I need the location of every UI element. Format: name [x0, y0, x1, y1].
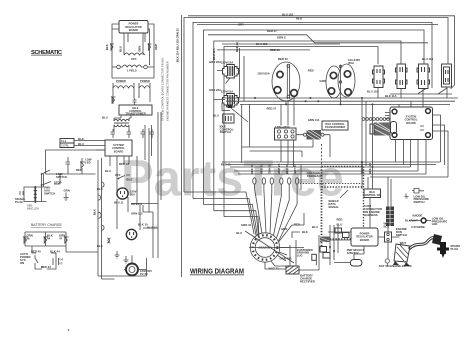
wire schematic right rail BLK: [66, 158, 147, 279]
svg-text:SIGNAL: SIGNAL: [328, 205, 339, 209]
svg-text:GRN: GRN: [64, 189, 70, 193]
svg-text:LUG: LUG: [297, 253, 303, 257]
wire tb1 risers: [281, 98, 294, 167]
svg-text:GRN 44: GRN 44: [241, 223, 252, 227]
wire horizontal runs lower: [222, 162, 440, 174]
wire field leads: [112, 67, 154, 78]
idle control down connector J1: [60, 139, 74, 148]
power winding right: [139, 79, 150, 88]
label GRN 47: [59, 234, 65, 241]
low oil pressure LED2: [409, 191, 447, 226]
svg-text:ON: ON: [20, 261, 24, 265]
svg-text:BATTERY CHARGE: BATTERY CHARGE: [31, 223, 62, 227]
wire wd loop 1: [184, 18, 448, 193]
svg-text:RED: RED: [294, 223, 300, 227]
svg-text:GRN: GRN: [138, 46, 142, 52]
svg-text:BLK 11A: BLK 11A: [385, 94, 397, 98]
wire low switch rail: [42, 170, 83, 202]
wire plug leads: [124, 255, 147, 276]
connector CN2 hatched: [370, 123, 390, 136]
junction node B: [317, 100, 319, 102]
twist lock plug P2: [124, 256, 153, 276]
svg-text:GRN: GRN: [319, 79, 325, 83]
svg-text:ENGINE HARNESS CONNECTOR PIN N: ENGINE HARNESS CONNECTOR PIN NUMBER: [166, 61, 170, 121]
label BLK 44: [47, 234, 53, 241]
svg-text:GRY: GRY: [238, 23, 244, 27]
wire scb bottom fan: [396, 140, 427, 175]
svg-text:CONTROL SW: CONTROL SW: [363, 193, 381, 197]
diode D6: [64, 237, 69, 243]
svg-text:1 FIELD: 1 FIELD: [127, 69, 137, 73]
duplex receptacle R4: [221, 90, 248, 123]
svg-text:SWITCH: SWITCH: [220, 130, 231, 134]
terminal row circles: [362, 118, 389, 121]
svg-text:RED 43: RED 43: [41, 265, 51, 269]
dashed harness stub: [321, 144, 323, 166]
wire right bottom bus: [299, 235, 319, 270]
circuit breaker CB3: [417, 64, 430, 89]
watermark PartsTree: [121, 150, 344, 207]
svg-text:BLU: BLU: [102, 116, 108, 120]
wire wd loop 2: [193, 22, 432, 198]
5-pin connector label: [364, 204, 382, 217]
2wh aux switch SW2: [41, 181, 62, 196]
wire left of prb: [328, 225, 351, 265]
nut terminal: [385, 259, 389, 263]
auto power sys on label: [20, 252, 31, 265]
low led LED1: [80, 158, 92, 173]
svg-text:WHT 25: WHT 25: [277, 163, 281, 174]
transformer T2 windings: [114, 119, 129, 126]
wire receptacle leads: [214, 48, 244, 101]
svg-text:GRY 111: GRY 111: [131, 202, 142, 206]
label GRN 46: [27, 234, 33, 241]
twist lock receptacle R5: [257, 62, 300, 101]
svg-text:SWITCH: SWITCH: [56, 175, 67, 179]
circuit breaker CB1: [373, 66, 385, 88]
svg-text:CATHODE: CATHODE: [411, 225, 425, 229]
wire board bottom drops: [110, 156, 129, 196]
circuit breaker CB4: [442, 64, 452, 87]
voltage feedback label: [307, 171, 323, 178]
svg-text:RED 13: RED 13: [119, 162, 129, 166]
ground GND2: [115, 251, 120, 258]
svg-text:BLU: BLU: [312, 225, 318, 229]
svg-text:BLU: BLU: [78, 142, 84, 146]
jmp select label: [347, 248, 365, 255]
svg-text:RED: RED: [296, 17, 302, 21]
connector CN1 hatched: [304, 130, 325, 140]
idle control sw box right: [363, 189, 381, 198]
svg-text:BLK 21: BLK 21: [250, 164, 254, 174]
wire wd loop 5: [224, 47, 378, 217]
svg-text:44: 44: [47, 236, 51, 240]
diode D1: [110, 44, 114, 50]
duplex receptacle R3: [221, 61, 239, 84]
svg-text:IDLE: IDLE: [61, 140, 67, 143]
wire cn1 leads: [297, 135, 331, 157]
battery BT1: [53, 256, 63, 266]
svg-text:BOARD: BOARD: [114, 149, 124, 153]
junction node H: [372, 103, 374, 105]
diode D3: [111, 97, 116, 103]
svg-text:BLU: BLU: [105, 169, 111, 173]
svg-text:LED: LED: [85, 161, 91, 165]
twist lock receptacle R6 240V: [326, 58, 360, 99]
svg-text:BLK: BLK: [302, 230, 308, 234]
svg-text:BLU 11B: BLU 11B: [367, 90, 379, 94]
junction node C: [309, 97, 311, 99]
transformer T3 gen winding: [24, 174, 47, 210]
junction node F: [340, 103, 342, 105]
low oil pressure switch S6: [405, 189, 430, 204]
svg-text:OFF: OFF: [115, 173, 121, 177]
wire mid horizontals: [242, 104, 313, 163]
svg-text:BLU 11: BLU 11: [114, 201, 124, 205]
jumper box: [345, 260, 362, 267]
idle control trans label: [322, 121, 348, 130]
svg-text:CNTRL: CNTRL: [61, 145, 70, 148]
svg-text:BLK: BLK: [105, 44, 109, 50]
receptacle 120V 20A R1: [117, 188, 137, 199]
svg-text:BLU: BLU: [337, 223, 343, 227]
wire left rail of regulator loop: [112, 24, 154, 78]
schematic title: [31, 50, 63, 56]
junction node G: [361, 97, 363, 99]
wire separator line: [181, 15, 183, 277]
svg-text:NUT ON ENGINE BLOCK: NUT ON ENGINE BLOCK: [379, 264, 412, 268]
receptacle 120V R2: [126, 229, 136, 239]
junction node I: [361, 161, 363, 163]
switch SW3: [35, 255, 38, 267]
svg-text:RED: RED: [308, 69, 314, 73]
capacitor C1: [133, 98, 137, 105]
svg-text:BOARD: BOARD: [360, 238, 370, 242]
svg-text:BLU 12: BLU 12: [147, 226, 157, 230]
svg-text:POWER: POWER: [116, 79, 126, 83]
wire engine area: [354, 198, 400, 267]
wire schematic dashed drops: [131, 112, 161, 258]
wire wd loop 3: [203, 30, 424, 205]
svg-text:GRN 2: GRN 2: [277, 36, 286, 40]
power regulator board U1: [119, 21, 148, 34]
svg-text:GRN: GRN: [281, 227, 287, 231]
engine block ground: [393, 244, 410, 266]
svg-text:GRN 23: GRN 23: [268, 163, 272, 174]
wire stator left feeds: [184, 192, 259, 238]
svg-text:PLUG: PLUG: [451, 247, 459, 251]
engine run switch S7: [385, 227, 407, 242]
svg-text:RED 22: RED 22: [270, 48, 280, 52]
battery charge rectifier BR1: [286, 266, 315, 283]
spark plug: [432, 234, 460, 258]
svg-text:60HZ 110V: 60HZ 110V: [27, 207, 39, 210]
inductor OPC: [124, 53, 145, 61]
junction node A: [305, 100, 307, 102]
wire breaker drops: [286, 87, 447, 207]
circuit breaker CB2: [396, 64, 408, 89]
capacitor C5: [150, 129, 155, 138]
spark plug wire: [409, 237, 437, 249]
diode D4: [23, 237, 28, 243]
svg-text:RED 22: RED 22: [260, 164, 264, 174]
idle control transformer T1: [119, 105, 152, 116]
svg-text:SWITCH: SWITCH: [414, 200, 425, 204]
wire outlet drops: [117, 197, 153, 258]
wire scb top drops: [399, 101, 423, 107]
junction node D: [254, 97, 256, 99]
battery charge loop: [25, 232, 66, 246]
wire top bus lines: [188, 16, 455, 94]
svg-text:120V/15A: 120V/15A: [221, 90, 233, 94]
low switch SW1: [41, 170, 67, 179]
wire stator right leads: [279, 213, 305, 255]
off idle on switch SW4: [115, 173, 133, 182]
svg-text:TRANSFORMER: TRANSFORMER: [325, 125, 345, 129]
svg-text:20A: 20A: [130, 193, 135, 197]
svg-text:PLUG: PLUG: [15, 200, 23, 204]
speck: [68, 329, 70, 331]
capacitor C3: [127, 129, 132, 138]
junction dots left prb: [329, 246, 335, 252]
svg-text:120V/15A: 120V/15A: [257, 72, 269, 76]
svg-text:SWITCH: SWITCH: [396, 233, 407, 237]
connector CN4 hatched small: [320, 237, 330, 243]
wiring diagram title: [190, 269, 244, 276]
svg-text:BLU: BLU: [213, 114, 219, 118]
svg-text:RECTIFIER: RECTIFIER: [300, 279, 315, 283]
svg-text:ANODE: ANODE: [412, 213, 422, 217]
wire lower frame left: [46, 150, 106, 174]
wire stator bottom leads: [265, 255, 286, 269]
svg-text:RED 22: RED 22: [278, 57, 288, 61]
power winding left: [113, 79, 134, 88]
svg-text:BLK: BLK: [78, 137, 84, 141]
svg-text:RED: RED: [337, 218, 343, 222]
diode D2: [148, 44, 152, 50]
svg-text:120V/15A: 120V/15A: [221, 61, 233, 65]
svg-text:OPC: OPC: [131, 57, 137, 61]
svg-text:BLU 11A: BLU 11A: [212, 48, 216, 60]
svg-text:GRY 27: GRY 27: [293, 164, 297, 174]
wire rectifier feeds: [290, 164, 301, 266]
shielded data signal region: [300, 167, 364, 259]
svg-text:BOARD: BOARD: [129, 28, 139, 32]
svg-text:IDLE: IDLE: [126, 178, 133, 182]
svg-text:BLU 118: BLU 118: [282, 13, 293, 17]
connector pins row: [253, 178, 299, 184]
svg-text:BLK: BLK: [97, 187, 103, 191]
svg-text:BLK 114 BLU 118 GRN 23: BLK 114 BLU 118 GRN 23: [176, 28, 180, 62]
svg-text:SCHEMATIC: SCHEMATIC: [31, 50, 63, 56]
connector arcs: [107, 238, 111, 243]
svg-text:BLU 26: BLU 26: [285, 164, 289, 174]
svg-text:RED: RED: [76, 168, 82, 172]
svg-text:RED 22: RED 22: [235, 42, 239, 52]
wire drops from regulator board: [124, 33, 145, 55]
svg-text:TRANSFORMER: TRANSFORMER: [125, 112, 145, 116]
svg-text:STOP: STOP: [54, 181, 62, 185]
wire stator fan from pins: [254, 184, 297, 241]
svg-text:HARNESS: HARNESS: [364, 213, 378, 217]
connector CN3 dark block: [386, 207, 394, 227]
svg-text:SYSTEM CONTROL BOARD CONNECTOR: SYSTEM CONTROL BOARD CONNECTOR PIN NO: [161, 58, 165, 121]
stator M1: [245, 231, 304, 263]
svg-text:GRN 114: GRN 114: [308, 118, 320, 122]
svg-text:WIRING DIAGRAM: WIRING DIAGRAM: [190, 269, 244, 276]
wire power winding frame: [113, 83, 150, 104]
svg-text:(-): (-): [60, 261, 63, 265]
label WHT BLK: [384, 222, 391, 229]
svg-text:POWER: POWER: [140, 79, 150, 83]
diode D5: [43, 237, 48, 243]
wire scb right loop: [370, 115, 448, 177]
svg-text:WHT 71: WHT 71: [269, 267, 280, 271]
svg-text:BLK: BLK: [97, 244, 103, 248]
svg-text:PartsTree: PartsTree: [121, 150, 344, 207]
wire idle control to board: [74, 141, 105, 151]
idle control switch box S5: [220, 114, 234, 134]
capacitor C2: [111, 129, 116, 138]
svg-text:BLU 118: BLU 118: [422, 57, 433, 61]
wire hop on BLK rail: [98, 182, 104, 230]
wire transformer leads: [114, 115, 131, 131]
signal plug P1: [15, 191, 26, 204]
svg-text:GRN 23A: GRN 23A: [209, 88, 221, 92]
svg-text:BLU: BLU: [236, 231, 242, 235]
svg-text:46: 46: [27, 236, 31, 240]
svg-text:GRN 112: GRN 112: [131, 212, 143, 216]
junction node J: [372, 166, 374, 168]
system control board right U3: [385, 107, 433, 140]
power regulator board right U4: [351, 228, 378, 246]
svg-text:RED 27: RED 27: [267, 29, 277, 33]
ground GND1: [64, 189, 70, 201]
capacitor C4: [141, 129, 146, 138]
svg-text:LED: LED: [432, 222, 438, 226]
svg-text:BLU 11B: BLU 11B: [256, 42, 268, 46]
svg-text:BLK: BLK: [93, 209, 97, 215]
svg-text:BOARD: BOARD: [406, 121, 416, 125]
customer ground lug: [297, 248, 317, 260]
wire lower top bus: [222, 98, 458, 111]
wire battery loop: [32, 246, 56, 269]
svg-text:SWITCH: SWITCH: [44, 192, 55, 196]
system control board U2: [105, 140, 132, 156]
wire wd loop 4: [214, 41, 401, 211]
field winding 1 FIELD: [117, 65, 148, 73]
svg-text:BLU: BLU: [119, 46, 123, 52]
terminal block TB1: [275, 125, 297, 140]
svg-text:RED 27: RED 27: [267, 107, 277, 111]
svg-text:FEEDBACK: FEEDBACK: [307, 174, 323, 178]
svg-text:WHT: WHT: [154, 43, 158, 50]
capacitor C6: [66, 157, 71, 170]
svg-text:47: 47: [59, 236, 63, 240]
junction node E: [285, 103, 287, 105]
